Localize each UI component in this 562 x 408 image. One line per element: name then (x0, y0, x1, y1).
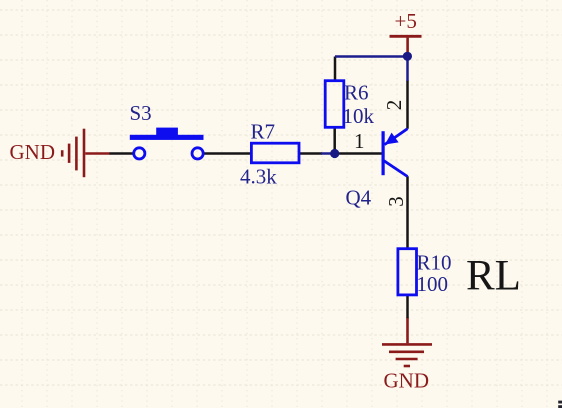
svg-text:GND: GND (384, 369, 430, 393)
svg-text:GND: GND (10, 140, 56, 164)
svg-text:2: 2 (382, 100, 406, 111)
svg-text:10k: 10k (343, 104, 375, 128)
svg-text:3: 3 (384, 196, 408, 207)
svg-text:Q4: Q4 (346, 186, 372, 210)
svg-text:1: 1 (354, 129, 365, 153)
svg-text:4.3k: 4.3k (240, 165, 277, 189)
svg-text:R6: R6 (344, 81, 369, 105)
svg-text:100: 100 (417, 272, 449, 296)
svg-text:RL: RL (466, 253, 521, 300)
svg-text:R10: R10 (417, 251, 452, 275)
svg-text:R7: R7 (251, 120, 276, 144)
svg-text:S3: S3 (130, 101, 152, 125)
svg-text:+5: +5 (395, 9, 417, 33)
